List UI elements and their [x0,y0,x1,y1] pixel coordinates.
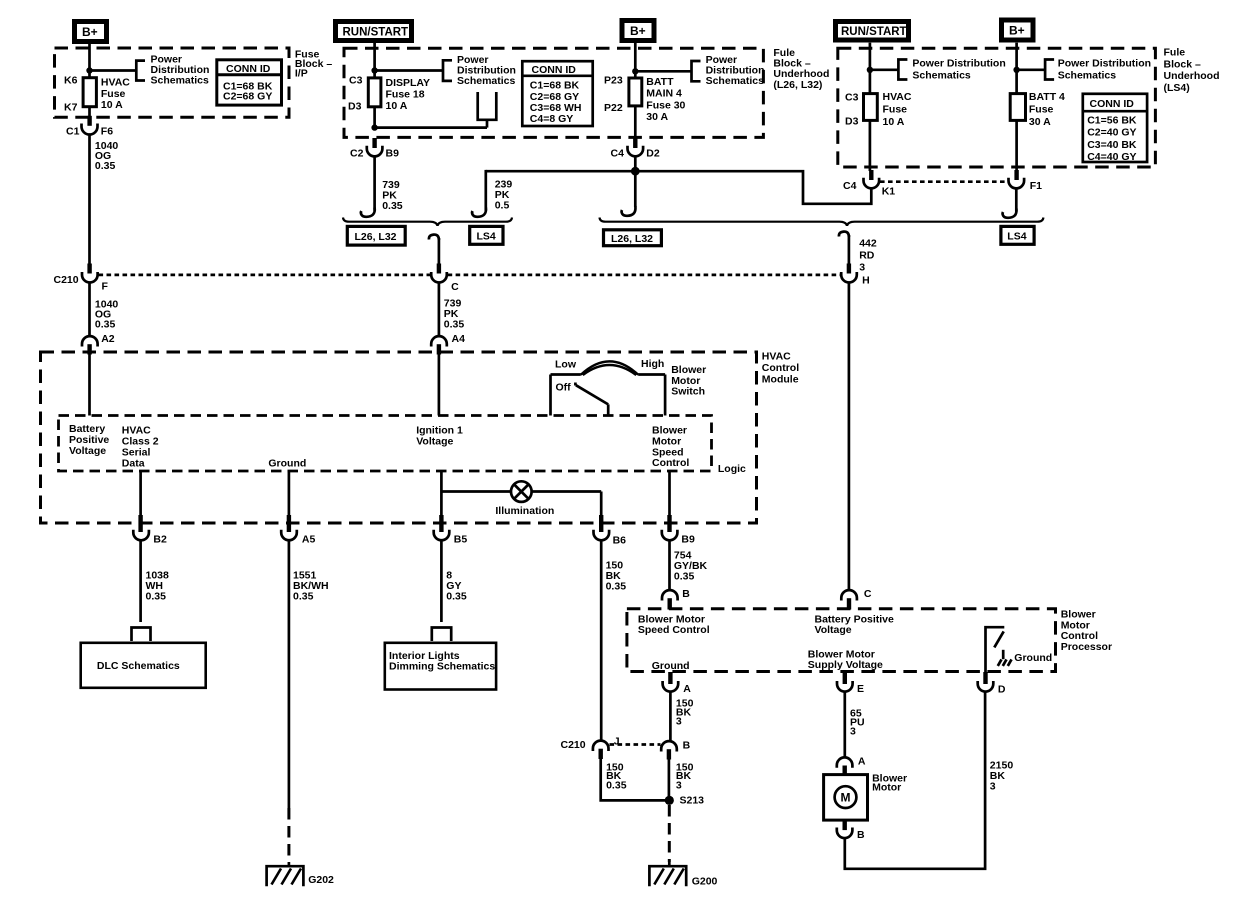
svg-text:C2=68 GY: C2=68 GY [530,91,579,103]
wire 754 GY/BK 0.35 [670,540,708,589]
svg-text:K7: K7 [64,102,78,114]
svg-text:Dimming Schematics: Dimming Schematics [389,661,495,673]
svg-text:B5: B5 [454,534,468,546]
svg-text:0.35: 0.35 [95,319,116,331]
wire branch to power distribution [375,69,443,72]
fuse block I/P dashed box [55,48,290,117]
wire 150 BK 3 (B leg) [669,760,694,801]
off-page entry bracket DLC [132,628,151,642]
junction node D2 branch [631,167,640,176]
svg-text:Ground: Ground [268,458,306,470]
svg-text:30 A: 30 A [1029,116,1051,128]
terminal B+ (fuse block I/P) [75,22,107,42]
svg-text:B+: B+ [82,25,98,39]
HVAC control module dashed box [41,352,757,523]
label Fule Block - Underhood (LS4) [1164,47,1220,94]
wire branch to power distribution [90,69,137,72]
label Ignition 1 Voltage [416,425,463,448]
svg-text:CONN ID: CONN ID [532,64,577,76]
svg-text:Fuse 18: Fuse 18 [386,89,425,101]
label Power Distribution Schematics [151,54,210,87]
junction node [371,67,377,73]
dashed wire S213 to ground [668,805,671,862]
fuse BATT MAIN 4 Fuse 30 30A (P23/P22) [604,75,686,139]
svg-text:F: F [102,281,109,293]
internal ground switch (processor) [986,627,1053,672]
motor M blower motor [824,775,868,821]
connector C (C210) [431,264,459,294]
svg-text:3: 3 [990,781,996,793]
svg-text:Logic: Logic [718,463,746,475]
box Interior Lights Dimming Schematics [385,643,496,690]
svg-text:A: A [683,683,691,695]
svg-text:K1: K1 [882,186,896,198]
svg-text:(LS4): (LS4) [1164,82,1190,94]
svg-text:BATT: BATT [646,76,674,88]
svg-text:C3: C3 [845,92,859,104]
svg-text:Processor: Processor [1061,641,1112,653]
svg-text:30 A: 30 A [646,111,668,123]
junction node [632,68,638,74]
terminal RUN/START (LS4) [836,22,909,41]
svg-text:C3=40 BK: C3=40 BK [1087,139,1137,151]
label Power Distribution Schematics [912,58,1005,82]
label Blower Motor [872,773,907,794]
wire 65 PU 3 (E leg) [845,692,865,758]
svg-text:B: B [683,740,691,752]
wire B+ to HVAC fuse [88,44,91,79]
off-page bracket power distribution [443,60,452,81]
svg-text:C4: C4 [843,180,857,192]
svg-text:C1=56 BK: C1=56 BK [1087,114,1137,126]
svg-text:D2: D2 [646,148,660,160]
svg-text:B+: B+ [1009,24,1025,38]
dotted connector line J to B [610,743,661,746]
connector A4 [431,333,465,355]
wire 739 PK 0.35 [375,156,403,212]
wire branch to power distribution [635,70,691,73]
off-page entry bracket interior lights [432,628,451,642]
svg-text:0.35: 0.35 [674,571,695,583]
svg-text:0.35: 0.35 [606,581,627,593]
svg-text:HVAC: HVAC [883,91,912,103]
off-page bracket power distribution [136,61,145,81]
dashed wire A5 to ground [287,808,290,862]
wire 442 RD 3 [849,235,877,274]
fuse block underhood (LS4) dashed box [838,48,1156,167]
svg-text:Ground: Ground [652,660,690,672]
wire end hook of D2 branch onto brace [634,171,637,207]
wire A2 into logic [88,355,91,416]
connector C (processor top) [841,588,872,610]
svg-text:Fuse: Fuse [883,103,908,115]
wire 1551 BK/WH 0.35 [289,540,329,808]
svg-text:BATT 4: BATT 4 [1029,91,1065,103]
label Blower Motor Switch [671,364,706,398]
svg-text:LS4: LS4 [477,231,496,243]
connector C1 F6 [66,116,113,138]
fuse DISPLAY Fuse 18 10A (C3/D3) [348,75,430,128]
svg-text:E: E [857,683,864,695]
brace 1 (wires into L26,L32 / LS4) [343,218,512,226]
label HVAC Control Module [762,351,799,386]
svg-text:B: B [857,829,865,841]
svg-text:Control: Control [762,362,799,374]
wire logic to B2 [139,471,142,524]
svg-text:C2: C2 [350,148,364,160]
connector A (processor bottom) [663,672,692,695]
brace 2 (wires into L26,L32 / LS4) [600,218,1044,226]
svg-text:D3: D3 [348,101,362,113]
svg-text:C3: C3 [349,75,363,87]
svg-text:3: 3 [676,716,682,728]
label Power Distribution Schematics [706,54,765,87]
svg-text:C: C [864,588,872,600]
svg-text:B9: B9 [681,534,695,546]
connector C4 D2 [611,138,660,160]
svg-text:A2: A2 [101,333,115,345]
svg-text:C2=40 GY: C2=40 GY [1087,127,1136,139]
connector C2 B9 [350,138,399,160]
svg-text:D3: D3 [845,116,859,128]
label Blower Motor Control Processor [1061,609,1112,653]
connector A (blower motor) [837,756,866,776]
svg-text:C1: C1 [66,126,80,138]
wire to second power distribution bracket [375,126,487,129]
svg-text:Switch: Switch [671,386,705,398]
svg-text:3: 3 [859,262,865,274]
svg-text:Schematics: Schematics [151,75,210,87]
junction node [1013,67,1019,73]
svg-text:Fule: Fule [1164,47,1186,59]
wire 1038 WH 0.35 [141,540,169,622]
label Fuse Block - I/P [295,49,333,80]
svg-text:F1: F1 [1030,180,1042,192]
connector J (C210) [561,736,620,760]
svg-text:Schematics: Schematics [912,70,971,82]
wire 150 BK 0.35 (J leg) [601,759,666,800]
svg-text:C2=68 GY: C2=68 GY [223,90,272,102]
stem hook from brace 2 [839,232,849,237]
svg-text:CONN ID: CONN ID [226,63,271,75]
svg-text:10 A: 10 A [883,116,905,128]
label Power Distribution Schematics [457,54,516,87]
blower motor control processor dashed box [627,609,1056,672]
junction node below display fuse [371,124,377,130]
svg-text:HVAC: HVAC [101,77,130,89]
label Battery Positive Voltage (processor) [815,613,895,636]
svg-text:0.35: 0.35 [446,591,467,603]
svg-text:3: 3 [850,726,856,738]
wire RUN/START to HVAC fuse (LS4) [869,43,872,94]
wire A4 into logic [438,355,441,416]
wire end hook onto brace [472,208,486,217]
logic dashed box [59,416,712,472]
dotted connector line K1 to F1 [880,180,1008,183]
svg-text:C3=68 WH: C3=68 WH [530,102,582,114]
terminal B+ (LS4) [1002,20,1034,40]
wire D2 to junction [634,156,637,171]
label Blower Motor Supply Voltage [808,648,883,671]
connector B (blower motor) [837,820,865,841]
connector E (processor bottom) [837,672,864,695]
harness box L26, L32 [347,226,405,245]
svg-text:Fuse 30: Fuse 30 [646,99,685,111]
wire horizontal branch 239 PK side [486,170,636,173]
svg-text:Fuse: Fuse [1029,103,1054,115]
svg-text:Voltage: Voltage [69,445,106,457]
label Fule Block - Underhood (L26,L32) [773,47,829,91]
wire illumination horizontal [441,490,511,493]
fuse block underhood (L26,L32) dashed box [344,48,763,137]
wire logic to B5 [440,471,443,524]
wire BATT MAIN 4 from B+ [634,43,637,79]
connector C210 F [54,264,109,293]
svg-text:(L26, L32): (L26, L32) [773,79,822,91]
connector H (C210) [841,264,869,287]
CONN ID table (LS4 block) [1083,94,1147,163]
svg-text:C210: C210 [54,274,79,286]
svg-text:M: M [841,791,851,805]
svg-text:Block –: Block – [1164,58,1202,70]
box DLC Schematics [81,643,206,688]
svg-text:I/P: I/P [295,68,308,80]
svg-text:Schematics: Schematics [706,75,765,87]
svg-text:A4: A4 [452,333,466,345]
svg-text:HVAC: HVAC [762,351,791,363]
svg-text:H: H [862,275,870,287]
terminal B+ (underhood L26,L32) [622,21,654,41]
svg-text:0.35: 0.35 [444,319,465,331]
svg-text:RUN/START: RUN/START [841,26,907,38]
svg-text:Speed Control: Speed Control [638,624,710,636]
svg-text:A5: A5 [302,534,316,546]
splice S213 [665,795,704,807]
svg-text:C4=40 GY: C4=40 GY [1087,151,1136,163]
svg-text:CONN ID: CONN ID [1090,98,1135,110]
svg-text:Motor: Motor [872,782,901,794]
svg-text:Off: Off [556,382,572,394]
connector B5 [434,515,468,546]
stem hook from brace 1 [429,235,439,240]
connector B (processor top) [662,588,690,610]
connector A2 [82,333,115,355]
wire 739 PK 0.35 (2) [439,282,464,336]
fuse HVAC 10A (K6/K7) [64,75,130,117]
svg-text:0.35: 0.35 [95,160,116,172]
svg-text:L26, L32: L26, L32 [355,231,397,243]
connector B2 [133,515,167,546]
connector D (processor bottom) [978,672,1006,696]
wire end hook onto brace [361,208,375,217]
junction node [867,67,873,73]
wire H down to blower motor control processor C [848,282,851,590]
svg-text:P22: P22 [604,102,623,114]
svg-text:Schematics: Schematics [457,75,516,87]
svg-text:B: B [682,588,690,600]
svg-text:10 A: 10 A [386,100,408,112]
svg-text:C210: C210 [561,739,586,751]
wire 1040 OG 0.35 (2) [90,282,119,336]
svg-text:0.35: 0.35 [606,780,627,792]
svg-text:0.5: 0.5 [495,200,510,212]
wire 8 GY 0.35 [441,540,466,622]
wire stem down to connector C [438,238,441,265]
svg-text:S213: S213 [680,795,705,807]
svg-text:0.35: 0.35 [382,200,403,212]
wire RUN/START to DISPLAY fuse [373,43,376,79]
svg-text:C1=68 BK: C1=68 BK [530,80,580,92]
svg-text:G202: G202 [308,874,334,886]
svg-text:Control: Control [652,457,689,469]
connector B6 [593,515,626,547]
svg-text:C: C [451,281,459,293]
wire branch to power distribution [870,68,899,71]
svg-text:0.35: 0.35 [146,591,167,603]
svg-text:G200: G200 [692,876,718,888]
wire 239 PK 0.5 [486,170,513,212]
wire end hook onto brace [1003,209,1017,218]
svg-text:B6: B6 [613,535,627,547]
svg-text:RUN/START: RUN/START [343,26,409,38]
harness box L26, L32 (brace 2) [604,230,662,246]
svg-text:Module: Module [762,374,799,386]
off-page bracket power distribution [898,60,907,80]
label Blower Motor Speed Control (processor) [638,613,710,636]
svg-text:L26, L32: L26, L32 [611,233,653,245]
svg-text:442: 442 [859,238,877,250]
dotted in-line connector C210 line [99,274,431,277]
harness box LS4 [470,226,503,244]
svg-text:K6: K6 [64,75,78,87]
svg-text:D: D [998,684,1006,696]
junction node [86,67,92,73]
fuse BATT 4 Fuse 30A (LS4) [1010,91,1065,170]
label HVAC Class 2 Serial Data [122,425,159,470]
svg-text:Power Distribution: Power Distribution [1058,58,1151,70]
svg-text:LS4: LS4 [1007,231,1026,243]
svg-text:Voltage: Voltage [416,436,453,448]
svg-text:B9: B9 [386,148,400,160]
wire B+ to BATT 4 fuse (LS4) [1015,43,1018,94]
off-page bracket power distribution [692,61,701,81]
svg-text:0.35: 0.35 [293,591,314,603]
wire 2150 BK 3 (blower B to D) [845,692,1014,869]
connector B (C210) [661,740,690,760]
svg-text:B+: B+ [630,24,646,38]
wire logic to A5 [288,471,291,524]
label Blower Motor Speed Control [652,425,689,470]
wire F1 to brace [1015,188,1018,211]
wire logic to B9 [668,471,671,524]
svg-text:C4: C4 [611,148,625,160]
off-page bracket power distribution (up-prongs) [478,92,497,120]
svg-text:Low: Low [555,359,577,371]
svg-text:B2: B2 [153,534,167,546]
svg-text:10 A: 10 A [101,99,123,111]
svg-text:Supply Voltage: Supply Voltage [808,659,883,671]
svg-text:Power Distribution: Power Distribution [912,58,1005,70]
connector F1 [1008,170,1042,192]
harness box LS4 (brace 2) [1001,226,1034,244]
CONN ID table (I/P block) [217,60,282,105]
svg-text:DLC Schematics: DLC Schematics [97,660,180,672]
svg-text:Schematics: Schematics [1058,70,1117,82]
svg-text:A: A [858,756,866,768]
connector C4 K1 [843,170,895,198]
wire 150 BK 0.35 (B6) [601,540,626,740]
svg-text:Ground: Ground [1014,652,1052,664]
svg-text:F6: F6 [101,126,113,138]
svg-text:C4=8 GY: C4=8 GY [530,113,573,125]
terminal RUN/START (L26,L32) [336,22,412,41]
wire illumination to B6 [600,492,603,525]
svg-text:Data: Data [122,458,145,470]
wire horizontal branch to K1 [635,171,871,204]
lamp illumination [495,481,554,517]
svg-text:MAIN 4: MAIN 4 [646,88,682,100]
ground G200 [649,862,717,888]
svg-text:Illumination: Illumination [495,505,554,517]
wire 1040 OG 0.35 [90,135,119,264]
label Power Distribution Schematics [1058,58,1151,82]
svg-text:P23: P23 [604,75,623,87]
fuse HVAC 10A (C3/D3 LS4) [845,91,912,171]
svg-text:3: 3 [676,780,682,792]
blower motor switch [551,358,666,416]
label Battery Positive Voltage [69,423,109,457]
off-page bracket power distribution [1045,60,1054,80]
CONN ID table (L26,L32 block) [522,61,592,126]
ground G202 [267,862,334,886]
svg-text:Voltage: Voltage [815,624,852,636]
wire 150 BK 3 (A to B) [670,692,693,741]
wire branch to power distribution [1017,68,1046,71]
svg-text:DISPLAY: DISPLAY [386,77,431,89]
connector B9 [662,515,695,546]
connector A5 [281,515,315,546]
svg-text:RD: RD [859,250,875,262]
svg-text:Underhood: Underhood [1164,70,1220,82]
svg-text:High: High [641,358,664,370]
